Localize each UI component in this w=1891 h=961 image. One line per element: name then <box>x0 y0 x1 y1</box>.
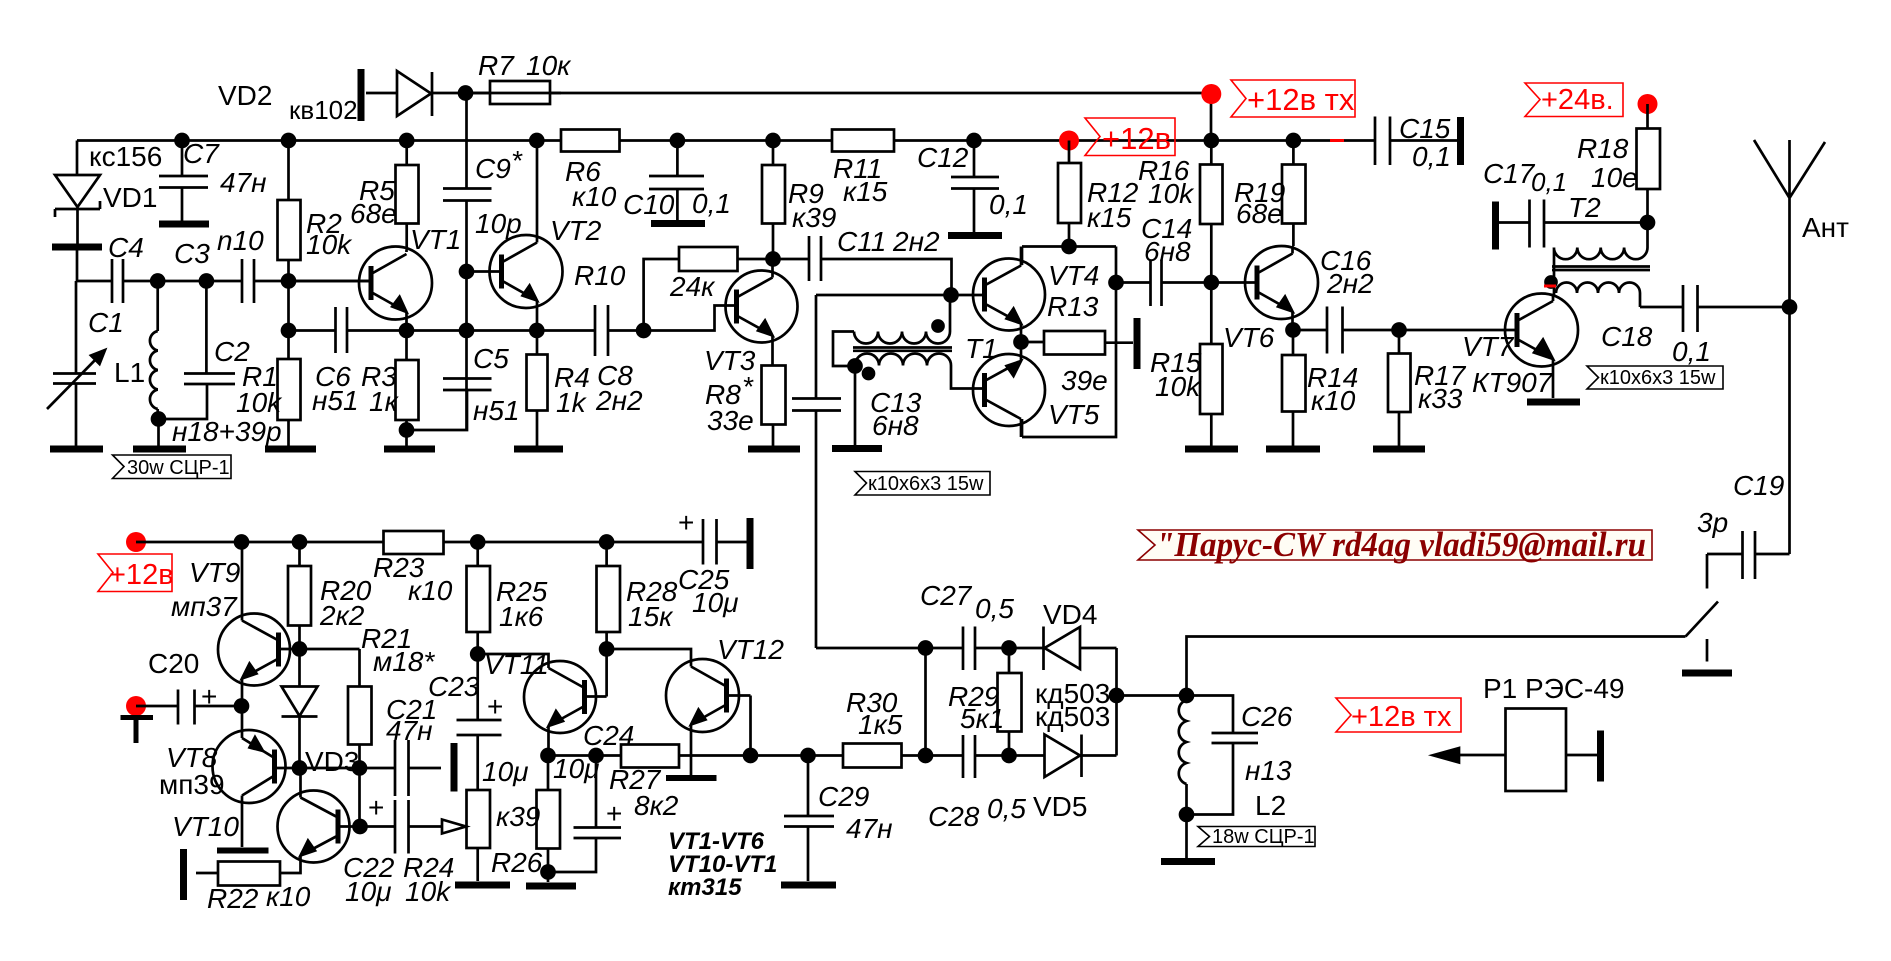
svg-text:+: + <box>487 691 503 722</box>
svg-text:к10х6х3 15w: к10х6х3 15w <box>868 473 984 495</box>
wire VT11 collector <box>478 654 549 662</box>
wire VD1 drop <box>76 141 79 176</box>
svg-text:30w СЦР-1: 30w СЦР-1 <box>127 457 230 479</box>
svg-text:VT5: VT5 <box>1048 399 1100 430</box>
flag +12в bottom <box>98 554 172 592</box>
svg-text:VT10: VT10 <box>172 811 239 842</box>
svg-text:10k: 10k <box>1155 371 1202 402</box>
resistor R15 10k <box>1200 344 1223 414</box>
node R17 top <box>1393 324 1406 337</box>
svg-text:10μ: 10μ <box>482 756 528 787</box>
svg-text:18w СЦР-1: 18w СЦР-1 <box>1212 826 1315 848</box>
svg-text:VT7: VT7 <box>1462 331 1515 362</box>
transistor VT10 <box>278 791 350 863</box>
resistor R28 15к <box>597 566 621 632</box>
node VT2 base <box>460 265 473 278</box>
capacitor C21 47н <box>395 740 441 796</box>
node VD2-R7 <box>459 87 472 100</box>
svg-text:к39: к39 <box>496 801 540 832</box>
node VT2 emitter <box>530 324 543 337</box>
svg-text:10μ: 10μ <box>553 753 599 784</box>
capacitor C22 10μ <box>360 800 442 854</box>
svg-text:+12в тх: +12в тх <box>1247 82 1355 117</box>
transformer T2 secondary <box>1556 283 1640 308</box>
svg-text:+: + <box>201 681 217 712</box>
svg-text:C15: C15 <box>1399 113 1451 144</box>
svg-text:6н8: 6н8 <box>872 410 919 441</box>
terminal plate C25 <box>747 518 754 569</box>
svg-text:VT6: VT6 <box>1223 322 1275 353</box>
node L2 bottom <box>1180 808 1193 821</box>
ground plate L1 <box>133 446 186 453</box>
wire oscillator node y281 <box>76 280 371 283</box>
node L1 top <box>151 275 164 288</box>
flag к10х6х3 15w keying <box>855 472 990 496</box>
svg-text:н51: н51 <box>312 385 359 416</box>
capacitor C17 0,1 <box>1496 200 1648 248</box>
svg-text:10p: 10p <box>475 208 522 239</box>
svg-text:VD1: VD1 <box>103 182 157 213</box>
svg-text:C29: C29 <box>818 781 869 812</box>
node C27 left <box>919 642 932 655</box>
resistor R18 10e <box>1637 129 1661 190</box>
capacitor C19 3p <box>1707 531 1790 589</box>
svg-text:н18+39p: н18+39p <box>172 416 282 447</box>
node R18-C17 <box>1641 216 1654 229</box>
svg-text:+: + <box>368 792 384 823</box>
resistor R10 24к <box>644 259 773 331</box>
resistor R9 к39 <box>762 165 785 224</box>
resistor R2 10k <box>278 200 301 260</box>
ground plate VT12 <box>666 775 717 781</box>
ground plate switch <box>1682 670 1732 677</box>
transformer T1 primary <box>833 295 950 366</box>
resistor R11 к15 <box>832 130 894 152</box>
capacitor C25 10μ <box>703 519 717 565</box>
transistor VT7 КТ907 <box>1505 294 1578 367</box>
terminal plate C17 <box>1492 202 1499 250</box>
svg-text:1к5: 1к5 <box>858 709 903 740</box>
svg-text:2к2: 2к2 <box>319 600 365 631</box>
flag 18w СЦР-1 <box>1198 827 1315 847</box>
svg-text:+: + <box>678 507 694 538</box>
svg-text:1к: 1к <box>369 386 400 417</box>
relay Р1 РЭС-49 <box>1506 709 1567 792</box>
svg-text:R7: R7 <box>478 50 515 81</box>
flag 30w СЦР-1 <box>113 455 232 479</box>
node R5 rail <box>400 134 413 147</box>
resistor R29 5к1 <box>998 673 1022 732</box>
node C28 left <box>919 749 932 762</box>
flag +12в тх bottom <box>1336 698 1461 732</box>
svg-text:R13: R13 <box>1047 291 1099 322</box>
ground plate C10 <box>651 220 705 227</box>
transformer T2 core <box>1552 267 1650 271</box>
node R16-R15-C14 <box>1205 276 1218 289</box>
key symbol T <box>121 718 154 744</box>
svg-text:C12: C12 <box>917 142 969 173</box>
svg-text:C26: C26 <box>1241 701 1293 732</box>
terminal plate R22 <box>180 849 187 900</box>
svg-text:R22: R22 <box>207 883 259 914</box>
wire VT8 base row <box>275 767 396 770</box>
svg-text:n10: n10 <box>217 225 264 256</box>
phase dot T1 secondary <box>863 368 874 379</box>
resistor R24 10k potentiometer <box>467 790 491 848</box>
ground plate L2 <box>1161 858 1215 865</box>
node R20 rail <box>293 536 306 549</box>
wire VT12 collector <box>607 649 691 660</box>
node L1 bottom <box>152 413 165 426</box>
capacitor C10 0,1 <box>649 141 704 221</box>
svg-text:5к1: 5к1 <box>960 703 1004 734</box>
svg-text:68e: 68e <box>350 198 397 229</box>
svg-text:C20: C20 <box>148 648 199 679</box>
svg-text:мп37: мп37 <box>171 591 238 622</box>
svg-text:VD2: VD2 <box>218 80 272 111</box>
switch TX-RX <box>1686 602 1719 662</box>
power node +12в bottom <box>126 532 146 552</box>
transistor VT6 <box>1245 246 1318 319</box>
capacitor C9 10p <box>443 189 492 201</box>
terminal plate C15 <box>1457 117 1464 165</box>
ground plate R8 <box>748 446 800 453</box>
inductor L2 <box>1179 696 1187 815</box>
svg-text:C18: C18 <box>1601 321 1653 352</box>
phase dot T1 primary <box>933 321 944 332</box>
wire TX rail top <box>366 93 1211 141</box>
svg-text:8к2: 8к2 <box>634 790 679 821</box>
wire R2-R1 link <box>287 281 290 331</box>
svg-text:33e: 33e <box>707 405 754 436</box>
terminal plate R13 <box>1134 318 1141 369</box>
svg-text:10e: 10e <box>1591 162 1638 193</box>
svg-text:C9: C9 <box>475 153 511 184</box>
svg-text:*: * <box>742 371 754 402</box>
capacitor C28 0,5 <box>926 735 1010 778</box>
svg-text:0,1: 0,1 <box>692 188 731 219</box>
banner Парус-CW <box>1138 525 1652 564</box>
wire VT7 base <box>1399 329 1517 332</box>
transistor VT9 мп37 <box>218 614 290 686</box>
svg-text:C23: C23 <box>428 671 480 702</box>
svg-text:C3: C3 <box>174 238 210 269</box>
resistor R13 39e <box>1044 331 1105 355</box>
svg-text:VT4: VT4 <box>1048 260 1099 291</box>
ground plate R15 <box>1185 446 1238 453</box>
node R29 bottom <box>1003 749 1016 762</box>
diode VD2 кв102 <box>397 71 432 116</box>
ground plate C29 <box>781 882 836 889</box>
resistor R25 1к6 <box>467 566 491 632</box>
svg-text:н13: н13 <box>1245 755 1292 786</box>
svg-text:10k: 10k <box>306 229 353 260</box>
svg-text:к10х6х3 15w: к10х6х3 15w <box>1600 367 1716 389</box>
svg-text:кт315: кт315 <box>668 874 742 901</box>
node VT9 collector rail <box>235 536 248 549</box>
svg-text:R10: R10 <box>574 260 626 291</box>
node T1 left C13 <box>849 360 862 373</box>
zener VD1 кс156 <box>55 175 100 217</box>
capacitor C16 2н2 <box>1293 307 1399 354</box>
capacitor C1 variable <box>53 281 96 446</box>
svg-text:"Парус-CW rd4ag vladi59@mail.r: "Парус-CW rd4ag vladi59@mail.ru <box>1156 525 1646 564</box>
resistor R22 к10 <box>218 862 280 886</box>
transistor VT5 <box>973 354 1045 426</box>
svg-text:к39: к39 <box>792 202 836 233</box>
node VT12 base bottom <box>744 749 757 762</box>
ground plate VT7 <box>1527 399 1580 406</box>
svg-text:0,1: 0,1 <box>1412 141 1451 172</box>
capacitor C11 2н2 <box>773 236 952 295</box>
wire +12v RX rail <box>77 139 1457 142</box>
node R16 rail <box>1205 134 1218 147</box>
node VT11 emitter <box>542 749 555 762</box>
transistor VT1 <box>359 247 432 320</box>
wire VT6 base <box>1211 281 1257 284</box>
svg-text:VT2: VT2 <box>550 215 602 246</box>
svg-text:Р1 РЭС-49: Р1 РЭС-49 <box>1483 673 1625 704</box>
node R21 bottom <box>353 762 366 775</box>
svg-text:C19: C19 <box>1733 470 1784 501</box>
node R1 top <box>282 324 295 337</box>
capacitor C14 6н8 <box>1116 260 1211 307</box>
capacitor C13 6н8 <box>792 295 841 648</box>
transistor VT11 <box>524 661 596 733</box>
wire VD2 column <box>465 93 468 430</box>
ground plate R4 <box>514 446 563 453</box>
wire VT3 base <box>644 306 737 331</box>
node R19 rail <box>1287 134 1300 147</box>
svg-text:0,5: 0,5 <box>987 793 1026 824</box>
node R29 top <box>1003 642 1016 655</box>
svg-text:15к: 15к <box>628 601 674 632</box>
wire diode bridge right <box>1117 648 1187 756</box>
svg-text:24к: 24к <box>669 271 716 302</box>
wire T1 left to ground <box>854 366 857 445</box>
svg-text:VD3: VD3 <box>305 746 359 777</box>
svg-text:VT9: VT9 <box>189 557 240 588</box>
red mark T2 <box>1544 285 1556 288</box>
svg-text:1к6: 1к6 <box>499 601 544 632</box>
svg-text:2н2: 2н2 <box>595 385 643 416</box>
capacitor C12 0,1 <box>951 141 999 233</box>
svg-text:VT11: VT11 <box>484 649 549 680</box>
node R28 bottom <box>600 643 613 656</box>
wire to R30 <box>751 754 844 757</box>
power node +12в <box>1059 131 1079 151</box>
svg-text:C10: C10 <box>623 189 675 220</box>
svg-text:+: + <box>606 798 622 829</box>
terminal plate C21 <box>451 743 458 792</box>
resistor R16 10k <box>1200 165 1223 225</box>
svg-text:2н2: 2н2 <box>1326 268 1374 299</box>
node VT3 collector <box>767 253 780 266</box>
capacitor C26 н13 <box>1187 696 1259 815</box>
node C8-R10 <box>637 324 650 337</box>
resistor R5 68e <box>396 165 419 224</box>
svg-text:10k: 10k <box>405 876 452 907</box>
svg-text:к15: к15 <box>1087 202 1132 233</box>
node VT4 base <box>945 289 958 302</box>
svg-text:C17: C17 <box>1483 158 1536 189</box>
node R2 rail <box>282 134 295 147</box>
capacitor C18 0,1 <box>1640 285 1790 332</box>
svg-text:кс156: кс156 <box>89 141 162 172</box>
svg-text:мп39: мп39 <box>159 769 225 800</box>
node VT10 base <box>354 820 367 833</box>
wire VT11 base <box>585 695 607 698</box>
node VT9-VT8 emitters <box>235 700 248 713</box>
node C7 rail <box>176 134 189 147</box>
svg-text:*: * <box>511 145 523 176</box>
diode VD3 <box>282 649 318 768</box>
svg-text:47н: 47н <box>220 167 267 198</box>
node C9-C5 column on emitter row <box>460 324 473 337</box>
node R2 bottom <box>282 275 295 288</box>
svg-text:10к: 10к <box>526 50 572 81</box>
node VD3 bottom <box>293 762 306 775</box>
node VD4-VD5 <box>1110 689 1123 702</box>
ground plate R17 <box>1373 446 1425 453</box>
ground plate R3 <box>384 446 435 453</box>
svg-text:1k: 1k <box>556 387 588 418</box>
svg-text:68e: 68e <box>1236 198 1283 229</box>
wire to R21 <box>300 649 360 687</box>
resistor R26 к39 <box>537 790 561 849</box>
node R25 bottom <box>471 648 484 661</box>
node L2 top <box>1180 689 1193 702</box>
node VT4-VT5 emitters <box>1015 336 1028 349</box>
resistor R1 10k <box>278 359 301 420</box>
svg-text:T2: T2 <box>1568 192 1601 223</box>
svg-text:+12в тх: +12в тх <box>1351 701 1452 733</box>
wire collector frame <box>1022 247 1116 438</box>
svg-text:10μ: 10μ <box>345 876 391 907</box>
capacitor C15 0,1 <box>1375 117 1390 166</box>
capacitor C6 н51 <box>336 307 348 353</box>
resistor R19 68e <box>1282 165 1306 224</box>
capacitor C7 47н <box>159 141 208 222</box>
node C12 rail <box>968 134 981 147</box>
svg-text:0,1: 0,1 <box>1672 336 1711 367</box>
phase dot T2 <box>1546 277 1557 288</box>
svg-text:н51: н51 <box>473 395 520 426</box>
wire +12v AF rail <box>136 541 747 544</box>
resistor R4 1k <box>527 355 548 411</box>
node R3 bottom <box>400 424 413 437</box>
transformer T1 secondary <box>855 354 960 389</box>
wire emitter row y330.5 <box>289 329 644 332</box>
resistor R7 <box>490 81 550 104</box>
resistor R23 к10 <box>384 531 444 554</box>
svg-text:VT1: VT1 <box>410 224 461 255</box>
node VT2 collector rail <box>530 134 543 147</box>
resistor R21 м18* <box>348 687 372 745</box>
resistor R3 1к <box>396 360 419 420</box>
node VT1 emitter <box>400 324 413 337</box>
node R12 frame top <box>1063 240 1076 253</box>
svg-text:C24: C24 <box>583 720 634 751</box>
node R28 rail <box>600 536 613 549</box>
svg-text:VD4: VD4 <box>1043 599 1097 630</box>
capacitor C2 <box>165 281 235 419</box>
capacitor C5 н51 <box>443 379 492 391</box>
capacitor C24 10μ <box>548 756 621 873</box>
power node +24в <box>1638 94 1658 114</box>
svg-text:47н: 47н <box>846 813 893 844</box>
ground plate C7 <box>159 221 209 228</box>
svg-text:C27: C27 <box>920 580 973 611</box>
svg-text:3p: 3p <box>1697 507 1728 538</box>
capacitor C3 n10 <box>242 259 254 303</box>
varicap plate VD2 <box>358 69 365 121</box>
svg-text:к15: к15 <box>843 176 888 207</box>
svg-text:C28: C28 <box>928 801 980 832</box>
resistor R8* 33e <box>762 366 786 425</box>
node R25 rail <box>471 536 484 549</box>
transformer T2 primary <box>1554 223 1648 296</box>
terminal plate VT8 collector <box>217 848 269 854</box>
svg-text:+12в: +12в <box>109 559 174 591</box>
diode VD4 кд503 <box>1009 627 1117 671</box>
svg-text:C5: C5 <box>473 343 509 374</box>
wire C27-C28 link <box>816 648 926 756</box>
svg-text:+12в: +12в <box>1102 121 1171 156</box>
ground plate C1 <box>50 446 103 453</box>
red mark near C15 <box>1330 139 1344 142</box>
ground plate R14 <box>1266 446 1320 453</box>
flag к10х6х3 15w PA <box>1587 366 1723 389</box>
svg-text:6н8: 6н8 <box>1144 236 1191 267</box>
ground plate T1 <box>832 445 882 452</box>
resistor R14 к10 <box>1282 355 1306 412</box>
wire keying line <box>1187 637 1686 696</box>
capacitor C23 10μ <box>457 720 502 790</box>
wire VT12 base <box>727 696 751 756</box>
svg-text:2н2: 2н2 <box>892 226 940 257</box>
node R26 bottom <box>542 866 555 879</box>
svg-text:T1: T1 <box>965 333 998 364</box>
inductor L1 <box>150 281 158 419</box>
resistor R27 8к2 <box>621 745 679 768</box>
svg-text:к10: к10 <box>572 181 617 212</box>
svg-text:L2: L2 <box>1255 790 1286 821</box>
svg-text:10k: 10k <box>1148 178 1195 209</box>
svg-text:R18: R18 <box>1577 133 1629 164</box>
capacitor C4 <box>112 259 123 303</box>
flag +12в top <box>1085 118 1175 156</box>
svg-text:м18*: м18* <box>373 646 435 677</box>
ground plate R26 <box>526 883 576 890</box>
node C2 top <box>200 275 213 288</box>
terminal plate relay <box>1597 731 1604 782</box>
ground plate VD1 <box>52 244 102 251</box>
svg-text:к33: к33 <box>1418 383 1463 414</box>
svg-text:кд503: кд503 <box>1035 701 1110 732</box>
resistor R12 к15 <box>1058 163 1081 223</box>
wire VT10 base <box>338 825 360 828</box>
node R9 rail <box>767 134 780 147</box>
node VT6 emitter <box>1287 324 1300 337</box>
svg-text:10k: 10k <box>236 387 283 418</box>
svg-text:0,5: 0,5 <box>975 593 1014 624</box>
svg-text:Ант: Ант <box>1802 212 1849 243</box>
transistor VT12 <box>666 659 739 732</box>
svg-text:C7: C7 <box>183 138 220 169</box>
ground plate C12 <box>948 232 1002 239</box>
svg-text:0,1: 0,1 <box>989 189 1028 220</box>
